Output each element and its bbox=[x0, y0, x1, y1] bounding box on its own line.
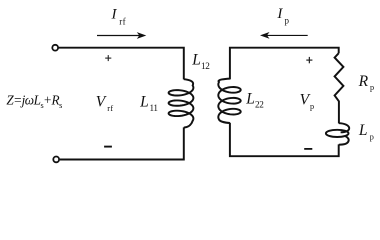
current arrow Irf bbox=[97, 32, 146, 39]
wire: left-loop lower right side and bottom to port bbox=[60, 127, 184, 159]
terminal: bottom-left port bbox=[53, 157, 59, 163]
terminal: top-left port bbox=[52, 45, 58, 51]
svg-text:L: L bbox=[139, 94, 149, 111]
polarity - (left loop) bbox=[104, 146, 112, 148]
svg-text:V: V bbox=[300, 92, 311, 109]
svg-text:22: 22 bbox=[255, 100, 264, 110]
svg-text:Z=jωLs+Rs: Z=jωLs+Rs bbox=[6, 92, 62, 110]
inductor L11 bbox=[169, 79, 194, 127]
svg-text:I: I bbox=[276, 6, 283, 22]
inductor Lp bbox=[326, 123, 349, 145]
svg-text:p: p bbox=[370, 133, 374, 142]
svg-text:V: V bbox=[96, 94, 107, 111]
svg-text:L: L bbox=[245, 90, 255, 107]
svg-text:11: 11 bbox=[150, 103, 159, 113]
wire: right-loop lower left side and bottom bbox=[230, 123, 339, 156]
resistor Rp bbox=[335, 53, 344, 123]
svg-text:L: L bbox=[191, 51, 201, 68]
svg-text:rf: rf bbox=[119, 16, 126, 26]
inductor L22 bbox=[218, 79, 240, 123]
svg-text:I: I bbox=[111, 6, 118, 22]
wire: left-loop top (port to top-right corner) and upper right side bbox=[58, 48, 183, 80]
svg-text:p: p bbox=[370, 83, 374, 92]
svg-text:rf: rf bbox=[107, 104, 113, 113]
svg-text:12: 12 bbox=[201, 61, 210, 71]
svg-text:p: p bbox=[285, 16, 290, 26]
polarity - (right loop) bbox=[304, 148, 312, 150]
svg-text:L: L bbox=[358, 122, 368, 139]
current arrow Ip bbox=[260, 32, 308, 39]
polarity + (left loop) bbox=[105, 55, 111, 61]
svg-text:p: p bbox=[310, 102, 314, 111]
polarity + (right loop) bbox=[306, 57, 312, 63]
wire: right-loop upper left side, top, and upper right side bbox=[230, 48, 339, 80]
svg-text:R: R bbox=[358, 73, 369, 90]
